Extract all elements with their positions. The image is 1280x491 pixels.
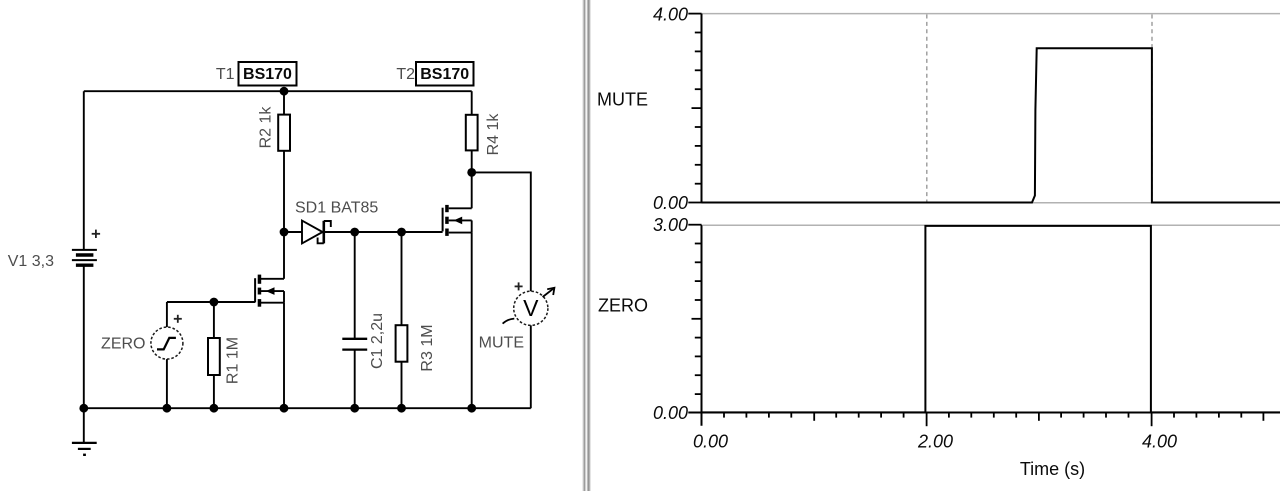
svg-text:V1 3,3: V1 3,3: [8, 253, 54, 270]
svg-text:R2 1k: R2 1k: [258, 106, 275, 149]
plus sign voltmeter: [515, 282, 523, 290]
resistor R3: [396, 232, 408, 408]
chart MUTE top frame: [702, 13, 1280, 15]
node C1 bottom: [350, 404, 359, 413]
transistor Q2 T2: [443, 205, 472, 236]
waveform MUTE: [702, 48, 1280, 202]
svg-text:T1: T1: [216, 66, 235, 83]
node R1 bottom: [210, 404, 219, 413]
svg-text:ZERO: ZERO: [598, 296, 648, 316]
svg-text:V: V: [523, 295, 539, 321]
chart MUTE y-axis: [701, 14, 703, 203]
svg-text:2.00: 2.00: [917, 432, 953, 452]
node R1 top: [210, 298, 219, 307]
waveform ZERO: [702, 226, 1280, 413]
wire gate row T1: [167, 301, 255, 303]
resistor R1: [208, 302, 220, 408]
plus sign ZERO: [174, 315, 182, 323]
svg-text:R4 1k: R4 1k: [485, 113, 502, 156]
node R3 top: [397, 228, 406, 237]
svg-text:T2: T2: [396, 66, 415, 83]
node top rail R2: [280, 87, 289, 96]
wire diode row right: [325, 231, 443, 233]
svg-text:Time (s): Time (s): [1020, 459, 1085, 479]
wire to diode: [284, 231, 302, 233]
node battery/ground: [79, 404, 88, 413]
plus sign battery: [92, 230, 100, 238]
svg-text:0.00: 0.00: [653, 403, 688, 423]
transistor Q1 T1: [255, 275, 284, 307]
capacitor C1: [342, 232, 367, 408]
wire battery to bottom rail: [83, 265, 85, 408]
voltmeter MUTE: [503, 288, 555, 408]
wire T1 source down: [283, 303, 285, 409]
svg-text:MUTE: MUTE: [479, 334, 524, 351]
node R3 bottom: [397, 404, 406, 413]
node T2 source bottom: [467, 404, 476, 413]
svg-text:3.00: 3.00: [653, 215, 688, 235]
node ZERO bottom: [163, 404, 172, 413]
svg-text:MUTE: MUTE: [597, 90, 648, 110]
chart ZERO y-axis: [701, 225, 703, 426]
wire bottom rail: [84, 407, 531, 409]
wire T1 drain up: [283, 232, 285, 279]
x-axis major ticks: [814, 413, 1263, 427]
chart MUTE bottom frame: [703, 202, 1280, 204]
svg-text:BS170: BS170: [420, 66, 469, 83]
gridline dashed t=2 upper: [926, 15, 928, 203]
splitter bar: [582, 0, 591, 491]
gridline dashed t=4 upper: [1151, 15, 1153, 203]
diode SD1 BAT85: [302, 221, 331, 244]
svg-text:ZERO: ZERO: [101, 335, 145, 352]
wire T2 source down: [471, 233, 473, 409]
x-axis minor ticks: [724, 413, 1241, 418]
svg-text:0.00: 0.00: [693, 432, 728, 452]
source ZERO: [151, 302, 183, 408]
svg-text:R3 1M: R3 1M: [419, 324, 436, 371]
node C1 top: [350, 228, 359, 237]
wire R4 node to voltmeter: [472, 172, 531, 291]
wire T2 drain up: [471, 172, 473, 208]
node diode row left: [280, 228, 289, 237]
chart ZERO top frame: [703, 224, 1280, 226]
wire top rail: [84, 90, 472, 92]
svg-text:SD1 BAT85: SD1 BAT85: [295, 199, 378, 216]
wire left rail: [83, 91, 85, 250]
svg-text:C1 2,2u: C1 2,2u: [369, 313, 386, 369]
box BS170 T2: [416, 62, 474, 86]
svg-text:R1 1M: R1 1M: [224, 337, 241, 384]
x-axis: [688, 412, 1280, 414]
battery V1: [72, 250, 97, 265]
svg-text:4.00: 4.00: [653, 4, 688, 24]
node T1 source bottom: [280, 404, 289, 413]
chart MUTE y ticks: [688, 14, 701, 203]
resistor R4: [466, 91, 478, 172]
svg-text:0.00: 0.00: [653, 193, 688, 213]
ground: [72, 408, 97, 455]
svg-text:BS170: BS170: [243, 66, 292, 83]
node R4 bottom: [467, 168, 476, 177]
box BS170 T1: [239, 62, 297, 86]
svg-text:4.00: 4.00: [1142, 432, 1177, 452]
resistor R2: [278, 91, 290, 232]
chart ZERO y ticks: [688, 225, 701, 394]
